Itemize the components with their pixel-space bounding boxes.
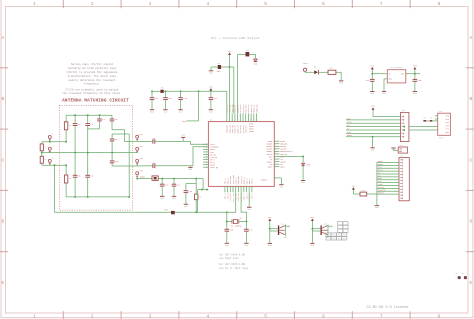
capacitor C14 decoupling xyxy=(151,91,153,97)
inductor L2 xyxy=(40,156,43,163)
capacitor C7 xyxy=(99,115,101,119)
pad P4 right xyxy=(136,135,139,138)
svg-text:For 887-1414-1-ND: For 887-1414-1-ND xyxy=(219,253,246,256)
wire RF row 2 xyxy=(137,165,153,167)
wire third feed xyxy=(230,66,234,68)
svg-text:CSn_SPI: CSn_SPI xyxy=(245,125,248,133)
svg-text:4: 4 xyxy=(235,120,236,122)
svg-text:7: 7 xyxy=(380,2,383,7)
IC U1 right pins xyxy=(274,140,279,142)
svg-text:5: 5 xyxy=(206,156,207,158)
svg-text:normally be 1/10 parallel caps: normally be 1/10 parallel caps xyxy=(68,66,117,70)
capacitor C2 xyxy=(152,164,154,169)
wire pad6 stub xyxy=(136,164,138,166)
wire step to pin2 xyxy=(193,147,208,166)
LED2 xyxy=(302,157,304,163)
pad P3 left xyxy=(48,159,51,162)
frame row ticks right xyxy=(466,67,474,69)
resistor R7 xyxy=(430,120,433,122)
diode D1 xyxy=(314,70,318,74)
svg-text:E: E xyxy=(1,281,4,286)
capacitor C19 LDO out xyxy=(414,74,416,79)
svg-text:C7/C8 are probably used to adj: C7/C8 are probably used to adjust xyxy=(65,87,119,91)
svg-text:5: 5 xyxy=(264,314,267,319)
svg-text:3: 3 xyxy=(149,314,152,319)
svg-text:2: 2 xyxy=(91,2,94,7)
svg-text:H2: H2 xyxy=(462,273,464,275)
resistor R6 xyxy=(360,192,367,196)
capacitor C21 crystal xyxy=(245,222,247,230)
capacitor C17 decoupling xyxy=(209,97,214,99)
svg-text:3V3: 3V3 xyxy=(182,120,187,123)
capacitor C9 xyxy=(111,134,113,139)
svg-text:6: 6 xyxy=(206,158,207,160)
ground flag up xyxy=(182,137,184,141)
ground JP4 xyxy=(391,147,395,149)
svg-text:use 10 or 15pF caps: use 10 or 15pF caps xyxy=(219,267,249,270)
capacitor C3 xyxy=(74,115,76,123)
svg-text:B: B xyxy=(1,97,4,102)
VCC arrow R6 xyxy=(352,187,355,189)
svg-text:A: A xyxy=(469,36,472,41)
svg-text:6: 6 xyxy=(240,120,241,122)
resistor R2 xyxy=(246,52,250,56)
capacitor C18 LDO in xyxy=(370,78,375,80)
LDO ground pin xyxy=(384,78,387,80)
svg-text:IN: IN xyxy=(389,73,391,76)
resistor R4 xyxy=(328,70,336,74)
crystal Q1 xyxy=(227,221,232,223)
svg-text:4: 4 xyxy=(206,314,209,319)
inductor L4 xyxy=(65,165,67,175)
inductor L3 xyxy=(65,115,67,122)
svg-text:9: 9 xyxy=(206,166,207,168)
capacitor C20 crystal xyxy=(226,222,228,230)
transistor Q2 xyxy=(278,225,279,235)
wire top rail xyxy=(66,114,112,116)
svg-text:A: A xyxy=(1,36,4,41)
capacitor C10 xyxy=(110,160,115,162)
pin marks JP2 xyxy=(400,159,402,161)
svg-text:8: 8 xyxy=(438,2,441,7)
wire pad3 row xyxy=(42,164,66,166)
wires to JP2 xyxy=(377,162,399,164)
wire VCC pin feed xyxy=(229,67,231,113)
wire pad1 stub xyxy=(49,140,51,143)
svg-text:E: E xyxy=(469,281,472,286)
connector SV1 body xyxy=(438,113,451,135)
capacitor C12 to ground xyxy=(173,179,175,184)
svg-text:6: 6 xyxy=(322,2,325,7)
svg-text:(C3/C4) to provide the impedan: (C3/C4) to provide the impedance xyxy=(66,70,118,74)
svg-text:transformation. The shunt cap: transformation. The shunt caps xyxy=(68,74,117,78)
svg-text:00: 00 xyxy=(338,235,340,237)
IC U1 body xyxy=(208,122,274,187)
VCC arrow LED xyxy=(228,53,231,55)
wire VCC bus xyxy=(152,90,160,92)
svg-text:8: 8 xyxy=(206,163,207,165)
spare grid horizontal xyxy=(326,233,331,236)
wire left inductor column xyxy=(41,142,43,144)
svg-text:D: D xyxy=(1,220,4,225)
svg-text:frequency.: frequency. xyxy=(84,82,100,86)
svg-text:C: C xyxy=(1,158,4,163)
svg-text:00: 00 xyxy=(333,235,335,237)
svg-text:3: 3 xyxy=(206,151,207,153)
svg-text:R5: R5 xyxy=(423,118,425,120)
LDO output wire xyxy=(406,73,420,75)
svg-text:ANTENNA MATCHING CIRCUIT: ANTENNA MATCHING CIRCUIT xyxy=(62,98,129,103)
svg-text:Series caps (C1/C2) should: Series caps (C1/C2) should xyxy=(71,62,113,66)
frame column ticks top xyxy=(62,0,64,8)
wire pad2 stub xyxy=(49,151,51,154)
svg-text:4: 4 xyxy=(206,153,207,155)
wire R5 R7 to SV1 xyxy=(427,120,430,122)
resistor R1 xyxy=(218,65,221,69)
svg-text:VBAT: VBAT xyxy=(303,62,309,65)
wire crystal left leg xyxy=(226,212,228,221)
IC U1 bottom pins xyxy=(224,186,226,192)
svg-text:B: B xyxy=(469,97,472,102)
svg-text:1: 1 xyxy=(227,120,228,122)
ground R4 xyxy=(340,72,342,80)
capacitor C1 xyxy=(152,139,154,144)
svg-text:7: 7 xyxy=(243,120,244,122)
svg-text:7: 7 xyxy=(206,161,207,163)
ground JP1 xyxy=(372,136,374,138)
svg-text:IC2 LP2985: IC2 LP2985 xyxy=(390,66,403,69)
svg-text:00: 00 xyxy=(343,238,345,240)
svg-text:C: C xyxy=(469,158,472,163)
wires to transistor Q2 xyxy=(270,228,278,230)
svg-text:VREG_EN: VREG_EN xyxy=(255,105,258,113)
frame row ticks left xyxy=(0,67,8,69)
wire bus to pin1 xyxy=(226,91,228,113)
svg-text:mainly determine the resonant: mainly determine the resonant xyxy=(69,78,116,82)
capacitor C13 to ground xyxy=(186,183,196,185)
svg-text:LED2: LED2 xyxy=(306,163,312,166)
header JP2 xyxy=(399,158,409,201)
ground Q3 circuit xyxy=(310,242,314,244)
capacitor C8 xyxy=(111,115,113,119)
svg-text:1: 1 xyxy=(33,314,36,319)
wire pad4 stub xyxy=(136,140,138,143)
capacitor C4 xyxy=(87,115,89,123)
wire pad3 stub xyxy=(49,164,51,165)
wire pad5 stub xyxy=(136,151,138,154)
ferrite bead FB2 xyxy=(160,90,163,93)
header JP1 xyxy=(401,112,409,141)
VCC arrow JP1 xyxy=(372,108,375,110)
wire pad6 row xyxy=(112,165,137,167)
VCC arrow LDO out xyxy=(413,67,416,69)
svg-text:RESET: RESET xyxy=(378,192,385,195)
JP2 riser and ground xyxy=(376,163,378,206)
wire bus branch xyxy=(198,91,200,121)
svg-text:0: 0 xyxy=(206,143,207,145)
svg-text:PAD_0: PAD_0 xyxy=(251,178,254,185)
wires to transistor Q3 xyxy=(312,228,320,230)
svg-text:8: 8 xyxy=(438,314,441,319)
svg-text:12: 12 xyxy=(255,120,257,122)
svg-text:R7: R7 xyxy=(430,118,432,120)
svg-text:CC-BY-SA 3.0 License: CC-BY-SA 3.0 License xyxy=(366,305,408,310)
LED1 xyxy=(254,54,256,58)
wire mid rail xyxy=(42,152,137,154)
pad P6 right xyxy=(136,159,139,162)
wires JP1 to SV1 xyxy=(409,126,438,128)
VCC arrow Q2 circuit xyxy=(268,219,271,221)
svg-text:use 33pF caps: use 33pF caps xyxy=(219,257,239,260)
svg-text:32.768kHz: 32.768kHz xyxy=(231,225,243,228)
svg-text:8: 8 xyxy=(245,120,246,122)
SV1 stubs xyxy=(435,115,438,117)
resistor R5 xyxy=(423,120,426,122)
wire RF row 1 xyxy=(137,140,153,142)
svg-text:3: 3 xyxy=(232,120,233,122)
svg-text:11: 11 xyxy=(253,120,255,122)
transistor Q3 xyxy=(321,225,322,235)
svg-text:2: 2 xyxy=(91,314,94,319)
wire GDO0 LED xyxy=(279,156,303,158)
spare grid vertical xyxy=(338,222,343,225)
svg-text:PAD_0: PAD_0 xyxy=(251,193,254,200)
header JP4 xyxy=(393,148,395,150)
capacitor C5 xyxy=(73,174,78,176)
wires to JP1 xyxy=(373,116,401,118)
wire right inner column xyxy=(112,133,129,135)
svg-text:the resonant frequency in fine: the resonant frequency in fine steps. xyxy=(62,91,122,95)
svg-text:6: 6 xyxy=(322,314,325,319)
svg-text:H1: H1 xyxy=(456,273,458,275)
capacitor C11 to ground xyxy=(161,179,163,184)
wire bead to IC xyxy=(158,178,203,180)
ground flag down xyxy=(189,166,191,168)
wire pad7 row xyxy=(137,178,152,180)
ground Q2 circuit xyxy=(268,242,272,244)
mounting hole H2 xyxy=(464,276,467,279)
svg-text:10: 10 xyxy=(250,120,252,122)
svg-text:VCC + Antenna LED Output: VCC + Antenna LED Output xyxy=(211,36,260,40)
wire XOUT drop xyxy=(241,192,246,221)
frame column ticks bottom xyxy=(62,311,64,319)
IC U1 top pins xyxy=(226,113,228,121)
VCC arrow LDO in xyxy=(371,67,374,69)
svg-text:GDO0: GDO0 xyxy=(347,134,353,137)
svg-text:D: D xyxy=(469,220,472,225)
wire IC corner gnd xyxy=(203,179,208,190)
ground LED circuit xyxy=(209,70,213,72)
svg-text:5: 5 xyxy=(237,120,238,122)
dashed box antenna matching circuit xyxy=(59,105,132,210)
capacitor C16 decoupling xyxy=(180,91,182,97)
ground IC pad xyxy=(274,177,281,179)
VCC arrow Q3 circuit xyxy=(311,219,314,221)
ferrite bead FB1 xyxy=(152,176,158,181)
wire LED feed xyxy=(237,54,239,113)
inductor L1 xyxy=(40,144,43,151)
mounting hole H1 xyxy=(458,276,461,279)
wire XIN drop xyxy=(235,192,237,212)
svg-text:FTDI: FTDI xyxy=(439,137,444,140)
svg-text:5: 5 xyxy=(264,2,267,7)
IC2 LDO body xyxy=(387,70,406,83)
wire step to pin1 xyxy=(190,141,208,144)
pad P1 left xyxy=(48,136,51,139)
svg-text:3: 3 xyxy=(149,2,152,7)
svg-text:00: 00 xyxy=(343,235,345,237)
wire pad1 row xyxy=(42,141,66,143)
svg-text:PADDLE: PADDLE xyxy=(261,178,269,181)
svg-text:For 887-1325-1-ND: For 887-1325-1-ND xyxy=(219,263,246,266)
svg-text:4: 4 xyxy=(206,2,209,7)
ferrite bead FB3 xyxy=(171,211,175,214)
wire bottom rail xyxy=(66,196,129,198)
resistor R3 xyxy=(195,179,197,195)
capacitor C15 decoupling xyxy=(165,91,167,97)
svg-text:7: 7 xyxy=(380,314,383,319)
ground bottom pin xyxy=(248,192,250,207)
VCC arrow top xyxy=(209,88,212,90)
wire pad7 stub xyxy=(136,177,138,179)
svg-text:00: 00 xyxy=(338,238,340,240)
capacitor C6 xyxy=(85,174,90,176)
svg-text:2: 2 xyxy=(229,120,230,122)
IC U1 left pins xyxy=(203,143,208,145)
svg-text:XOSC_Q1: XOSC_Q1 xyxy=(210,166,219,169)
svg-text:2: 2 xyxy=(206,148,207,150)
pad P5 right xyxy=(136,147,139,150)
wire top right step xyxy=(112,130,137,142)
svg-text:1: 1 xyxy=(206,145,207,147)
wire ground bus xyxy=(54,165,56,212)
pad P2 left xyxy=(48,147,51,150)
svg-text:1: 1 xyxy=(33,2,36,7)
svg-text:00: 00 xyxy=(333,238,335,240)
pad P7 right xyxy=(136,172,139,175)
